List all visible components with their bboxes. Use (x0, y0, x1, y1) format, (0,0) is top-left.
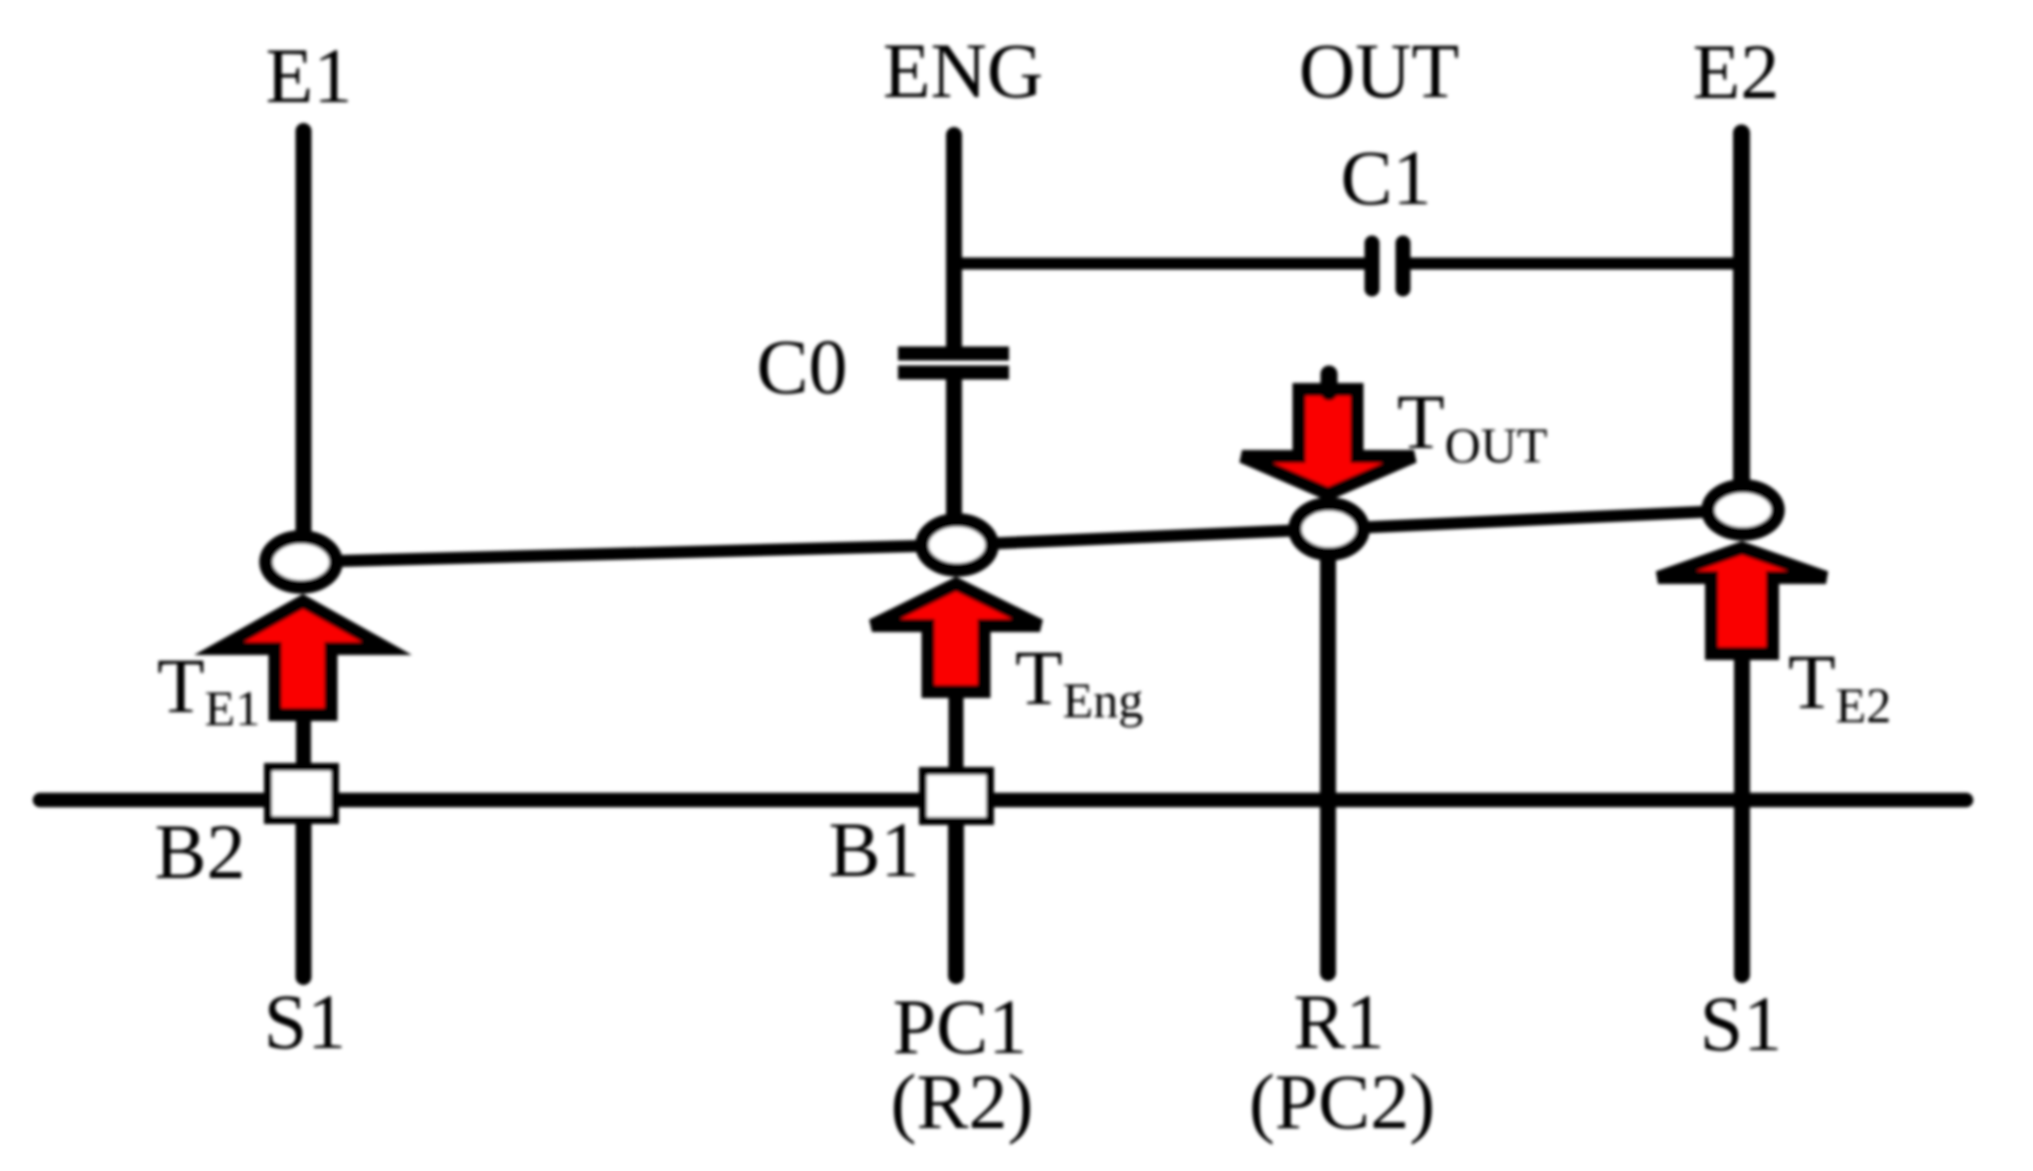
svg-text:S1: S1 (1700, 980, 1782, 1067)
wire: E2 vertical lead below arrow to bottom (1734, 655, 1750, 975)
wire: C1 branch horizontal left segment (ENG to C1) (954, 258, 1365, 270)
wire: ENG top vertical lead (above capacitor C0) (946, 135, 962, 350)
svg-text:S1: S1 (264, 978, 346, 1065)
thermal arrow T_E2 (red up arrow under node E2) (1658, 548, 1826, 654)
svg-text:TE2: TE2 (1788, 638, 1891, 733)
svg-text:OUT: OUT (1299, 27, 1459, 114)
svg-text:TEng: TEng (1015, 634, 1143, 728)
svg-text:R1: R1 (1293, 978, 1384, 1065)
svg-text:TOUT: TOUT (1397, 378, 1547, 473)
node ENG (open circle) (922, 520, 992, 570)
wire: bottom horizontal bus (40, 793, 1966, 808)
thermal arrow T_Eng (red up arrow under node ENG) (872, 584, 1040, 692)
svg-text:B2: B2 (154, 808, 245, 895)
svg-text:C1: C1 (1340, 134, 1431, 221)
node E2 (open circle) (1708, 486, 1778, 534)
capacitor C1 plates (1365, 243, 1380, 289)
wire: E1 top vertical lead (296, 131, 312, 545)
node OUT (open circle) (1295, 504, 1363, 554)
node E1 (open circle) (266, 537, 336, 587)
svg-text:ENG: ENG (883, 27, 1043, 114)
svg-text:E2: E2 (1693, 28, 1780, 115)
wire: E1 vertical lead below square B2 (296, 824, 312, 977)
switch square B2 (268, 767, 335, 820)
wire: connector from T_Eng arrow to square B1 (949, 693, 964, 772)
wire: E2 top vertical lead (1733, 133, 1750, 490)
wire: slanted collector line through nodes E1-ENG-OUT-E2 (301, 510, 1743, 562)
svg-text:B1: B1 (828, 806, 919, 893)
wire: C1 branch horizontal right segment (C1 to E2) (1410, 258, 1748, 270)
capacitor C0 plates (898, 347, 1009, 361)
wire: OUT vertical lead below node (1320, 550, 1336, 973)
svg-text:TE1: TE1 (157, 642, 260, 736)
wire: ENG vertical lead below square B1 (948, 825, 964, 976)
svg-text:(PC2): (PC2) (1249, 1058, 1435, 1145)
switch square B1 (923, 771, 990, 821)
svg-text:(R2): (R2) (891, 1058, 1034, 1145)
thermal arrow T_OUT (red down arrow above node OUT) (1242, 390, 1414, 495)
thermal arrow T_E1 (red up arrow under node E1) (219, 602, 387, 715)
svg-text:E1: E1 (266, 32, 353, 119)
svg-text:PC1: PC1 (893, 983, 1027, 1070)
wire: connector from T_E1 arrow to square B2 (296, 716, 311, 768)
wire: stub above T_OUT arrow (1321, 374, 1338, 392)
svg-text:C0: C0 (756, 323, 847, 410)
wire: ENG vertical lead between C0 and node (946, 376, 962, 530)
